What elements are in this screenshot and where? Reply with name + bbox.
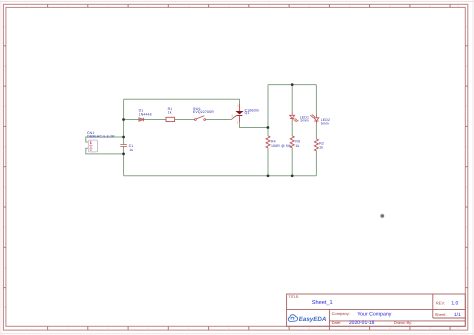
LED LED1 (290, 112, 298, 122)
connector CN1 (88, 140, 97, 152)
svg-text:1k: 1k (295, 144, 299, 148)
svg-text:1k: 1k (168, 111, 172, 115)
svg-text:R4: R4 (271, 139, 276, 143)
svg-text:1k: 1k (319, 145, 323, 149)
svg-text:100R @ 5W: 100R @ 5W (271, 144, 292, 148)
EasyEDA logo (288, 315, 297, 322)
svg-text:2: 2 (237, 122, 239, 125)
svg-text:1u: 1u (129, 148, 133, 152)
wire: CN1 pin2 to left vertical (86, 148, 124, 154)
wire: branch LED1 vertical upper (291, 85, 293, 112)
svg-text:DB9EHC-5.8-2P: DB9EHC-5.8-2P (87, 135, 115, 139)
svg-text:H: H (466, 306, 468, 309)
svg-text:Sheet_1: Sheet_1 (312, 299, 333, 306)
wire: anode top rail from left vertical to Q1 (124, 99, 240, 104)
svg-text:R0: R0 (295, 139, 300, 143)
switch SW1 (195, 116, 206, 121)
resistor R4 (266, 136, 270, 148)
resistor R2 (314, 139, 318, 151)
svg-text:5mm: 5mm (321, 121, 329, 125)
svg-text:Q1: Q1 (245, 111, 250, 115)
diode D1 (139, 118, 144, 121)
resistor R1 (166, 117, 175, 121)
wire: branch LED2 vertical upper (315, 85, 317, 115)
wire: branch R4 vertical upper (267, 85, 269, 136)
svg-text:1.0: 1.0 (451, 301, 458, 307)
svg-text:Your Company: Your Company (357, 312, 392, 318)
wire: SW1 right terminal to Q1 gate (206, 118, 233, 121)
wire: main top wire through D1 R1 to SW1 (124, 119, 195, 121)
wire: branch LED1 middle (291, 122, 293, 136)
svg-text:1N4448: 1N4448 (139, 112, 152, 116)
wire: bottom rail (124, 175, 317, 177)
svg-text:D: D (466, 146, 468, 149)
junction at bottom rail and LED1 branch (291, 174, 294, 177)
wire: branch LED2 middle (315, 124, 317, 139)
svg-text:EasyEDA: EasyEDA (299, 316, 327, 323)
junction at Q1 cathode and R4 branch (267, 126, 270, 129)
svg-text:3: 3 (231, 114, 233, 117)
svg-text:EVQ22705R: EVQ22705R (193, 110, 214, 114)
junction at top rail and LED1 branch (291, 83, 294, 86)
wire: branch R4 vertical lower (267, 148, 269, 176)
svg-text:C: C (466, 105, 468, 108)
wire: branch LED2 lower (315, 151, 317, 176)
capacitor C1 (120, 145, 127, 147)
wire: CN1 pin1 to left vertical (86, 137, 124, 142)
svg-text:Company:: Company: (332, 311, 350, 316)
wire: branch LED1 lower (291, 148, 293, 176)
wire: left vertical lower segment (C1 bottom to bottom rail) (123, 146, 125, 175)
svg-text:H: H (4, 306, 6, 309)
thyristor Q1 (SCR) (232, 104, 243, 122)
svg-text:C: C (4, 105, 6, 108)
wire: Q1 cathode down and right to R4 branch (240, 122, 268, 127)
svg-text:G: G (466, 266, 468, 269)
svg-text:Sheet:: Sheet: (435, 312, 447, 317)
wire: top rail of LED/R branches (268, 84, 316, 86)
svg-text:5mm: 5mm (301, 119, 309, 123)
resistor R0 (290, 136, 294, 148)
stray grey dot (381, 214, 384, 217)
title block frame (287, 294, 466, 326)
junction at CN1 pin2 wire (122, 153, 125, 156)
LED LED2 (311, 115, 319, 125)
svg-text:Date:: Date: (332, 320, 342, 325)
svg-text:REV:: REV: (436, 301, 445, 306)
junction at CN1 pin1 wire (122, 136, 125, 139)
svg-text:Drawn By:: Drawn By: (394, 320, 412, 325)
svg-text:2020-01-18: 2020-01-18 (349, 320, 375, 326)
svg-text:TITLE:: TITLE: (289, 295, 300, 299)
wire: left vertical upper segment (to C1 top plate) (123, 99, 125, 144)
junction at bottom rail and R4 branch (267, 174, 270, 177)
faint screenshot edge lines (0, 0, 474, 2)
svg-text:1/1: 1/1 (454, 312, 461, 318)
svg-text:D: D (4, 146, 6, 149)
svg-text:G: G (4, 266, 6, 269)
svg-text:1: 1 (237, 104, 239, 107)
junction at left vertical and D1 wire (122, 118, 125, 121)
